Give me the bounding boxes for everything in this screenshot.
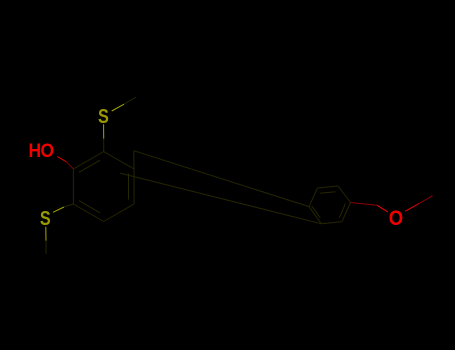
wire chain upper long bond — [134, 151, 309, 207]
svg-text:HO: HO — [29, 139, 54, 161]
wire ring edge BR-B — [104, 204, 134, 222]
wire ring edge T-TR — [104, 152, 134, 170]
wire ring edge L-TL — [309, 188, 318, 207]
wire O-methyl bond red half — [405, 204, 419, 212]
wire S-C bond dark half — [103, 139, 105, 152]
wire S-C bond yellow half (bottom) — [53, 207, 64, 212]
wire S-methyl bond yellow half (bottom) — [45, 227, 47, 241]
wire O-C bond red half — [57, 157, 66, 163]
wire S-C bond dark half (bottom) — [64, 204, 73, 207]
wire ring edge R-BR — [342, 203, 351, 222]
left benzene ring — [73, 152, 134, 222]
wire ring edge TL-T — [73, 152, 103, 170]
wire C-O bond red half — [377, 205, 388, 212]
wire ring edge BL-L — [309, 207, 321, 224]
wire S-methyl bond yellow half — [112, 104, 124, 111]
svg-text:S: S — [40, 208, 51, 230]
wire ring edge TR-BR — [133, 169, 135, 204]
wire inner double bond R-BR — [339, 204, 345, 218]
wire ring edge BR-BL — [321, 222, 342, 224]
wire chain stub TR up — [133, 151, 135, 169]
wire S-methyl bond dark half (bottom) — [45, 241, 47, 254]
wire S-C bond yellow half — [103, 124, 105, 139]
wire inner double bond TL-T — [79, 160, 100, 172]
wire ring edge TR-R — [338, 186, 351, 203]
wire C-O bond dark half — [351, 203, 378, 206]
wire ring edge TL-TR — [318, 186, 339, 188]
wire inner double bond TR-BR — [128, 174, 130, 200]
wire inner double bond BL-L — [312, 206, 321, 218]
wire O-C bond dark half — [67, 162, 74, 169]
wire ring edge B-BL — [73, 204, 103, 222]
right benzene ring — [309, 186, 351, 224]
wire chain lower long bond — [120, 173, 321, 224]
wire O-methyl bond dark half — [419, 196, 433, 204]
wire inner double bond TL-TR — [320, 192, 336, 194]
wire ring edge BL-TL — [72, 169, 74, 204]
wire S-methyl bond dark half — [124, 97, 136, 104]
svg-text:O: O — [389, 207, 403, 231]
wire inner double bond B-BL — [79, 201, 100, 213]
